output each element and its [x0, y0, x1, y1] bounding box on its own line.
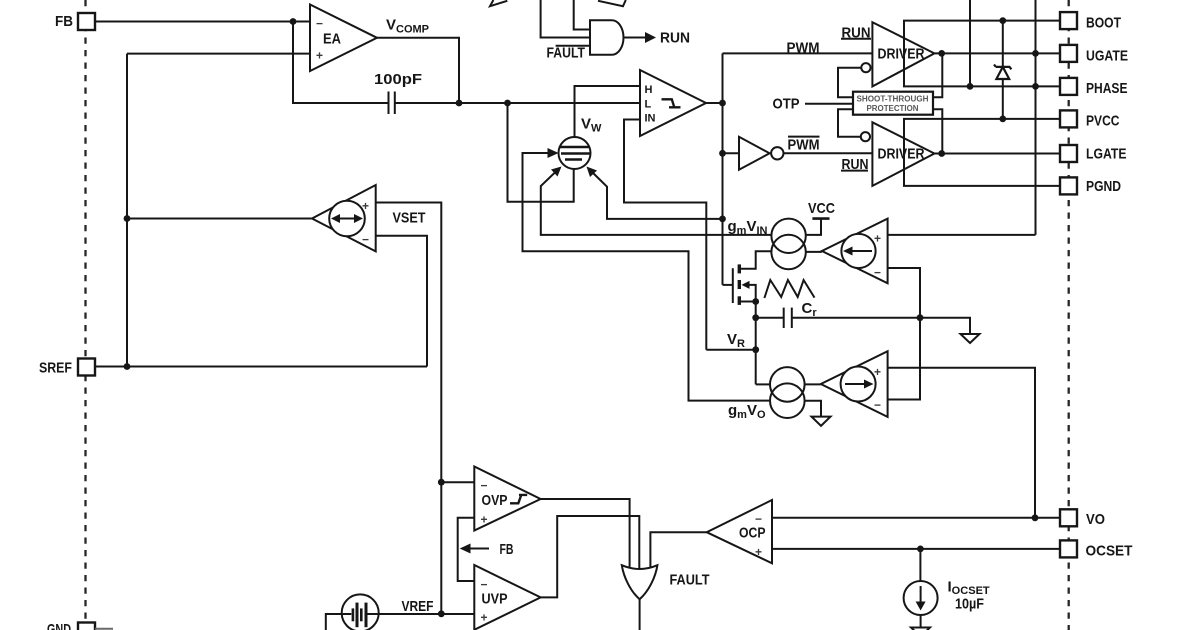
- svg-text:H: H: [645, 84, 653, 96]
- svg-text:+: +: [316, 49, 323, 63]
- svg-text:PWM: PWM: [787, 40, 820, 57]
- wire ramp node vertical: [755, 302, 757, 385]
- node OCSET tap: [917, 546, 924, 553]
- svg-text:BOOT: BOOT: [1086, 15, 1121, 32]
- pin VO: [1060, 509, 1077, 526]
- svg-text:OVP: OVP: [482, 492, 508, 509]
- wire EA output VCOMP: [377, 38, 459, 103]
- node PWM: [719, 100, 726, 107]
- svg-text:OTP: OTP: [773, 96, 800, 113]
- svg-text:+: +: [874, 232, 881, 246]
- pin LGATE: [1060, 145, 1077, 162]
- wire PWM comparator output: [706, 102, 723, 104]
- inverting enable bubble lower driver: [861, 132, 870, 141]
- diode boot (zener): [1002, 21, 1004, 66]
- wire VR to comparator IN: [706, 349, 755, 351]
- wire GND stub: [95, 628, 113, 630]
- svg-text:FAULT: FAULT: [547, 45, 586, 62]
- node PHASE tap: [1032, 83, 1039, 90]
- wire FB pin to EA inverting input: [95, 21, 310, 23]
- wire PVCC/PGND bracket lower driver: [904, 119, 1060, 186]
- svg-text:PHASE: PHASE: [1086, 80, 1128, 97]
- svg-text:+: +: [362, 199, 369, 213]
- svg-text:−: −: [316, 17, 323, 31]
- wire upper bubble to shoot-through box: [838, 68, 861, 98]
- svg-text:OCSET: OCSET: [1086, 543, 1133, 560]
- node inverter input: [719, 150, 726, 157]
- node VW branch: [504, 100, 511, 107]
- wire AND input1 from top: [574, 0, 590, 30]
- svg-text:LGATE: LGATE: [1086, 145, 1127, 162]
- waveform sawtooth icon: [764, 280, 814, 298]
- wire boot rail from top: [1035, 0, 1037, 235]
- wire FAULT output: [639, 599, 641, 630]
- svg-text:PVCC: PVCC: [1086, 113, 1120, 130]
- wire upper gm - to lower gm - rail: [888, 268, 920, 400]
- wire box to LGATE sense: [933, 109, 942, 153]
- gate AND (RUN): [590, 20, 624, 55]
- svg-text:EA: EA: [323, 31, 341, 48]
- node VO tap: [1032, 514, 1039, 521]
- driver U-high: [872, 22, 934, 86]
- wire Cr right to ground: [792, 318, 970, 334]
- svg-text:L: L: [645, 99, 652, 111]
- svg-text:+: +: [874, 365, 881, 379]
- current source pair gmVO: [770, 367, 805, 402]
- IC boundary dashed line (left): [84, 0, 86, 630]
- svg-text:UVP: UVP: [482, 591, 508, 608]
- svg-text:PGND: PGND: [1086, 178, 1121, 195]
- inverter PWMB: [723, 152, 740, 154]
- current source pair gmVIN: [771, 219, 805, 253]
- wire SREF: [95, 366, 427, 368]
- svg-text:RUN: RUN: [660, 30, 690, 47]
- wire IOCSET to ground: [920, 615, 922, 628]
- svg-text:FAULT: FAULT: [670, 572, 710, 589]
- wire RUN output arrow: [623, 37, 646, 39]
- wire upper gm + input from PHASE: [888, 234, 1036, 236]
- svg-text:OCP: OCP: [739, 525, 766, 542]
- svg-text:FB: FB: [55, 13, 73, 30]
- svg-text:+: +: [481, 611, 488, 625]
- svg-text:IN: IN: [645, 113, 656, 125]
- wire AND input2 from top: [541, 0, 590, 38]
- wire VW lower-right arrow from PWM net: [592, 172, 723, 219]
- wire VW left arrow from gmVO net: [523, 153, 771, 401]
- node diode to PVCC: [999, 116, 1006, 123]
- IC boundary dashed line (right): [1068, 0, 1070, 630]
- wire VCOMP to comparator L input: [459, 102, 640, 104]
- node FB/EA- junction: [290, 18, 297, 25]
- capacitor Cr: [756, 317, 784, 319]
- wire VW lower-left arrow from gmVIN net: [541, 171, 772, 235]
- svg-text:DRIVER: DRIVER: [878, 146, 925, 163]
- svg-text:VO: VO: [1086, 511, 1105, 528]
- node Q1 source/body: [752, 298, 759, 305]
- wire FB arrow: [468, 548, 489, 550]
- wire phase sense from top: [969, 0, 971, 86]
- wire Q1 gate from PWM rail: [723, 284, 733, 286]
- pin BOOT: [1060, 12, 1077, 29]
- svg-text:−: −: [362, 233, 369, 247]
- svg-text:PWM: PWM: [788, 137, 820, 154]
- svg-text:FB: FB: [500, 541, 514, 558]
- wire OCP + input from OCSET: [772, 548, 1060, 550]
- pin OCSET: [1060, 540, 1077, 557]
- wire FB bracket OVP+/UVP-: [458, 518, 475, 581]
- node VR: [752, 346, 759, 353]
- cut triangle top left edge: [490, 0, 507, 6]
- wire OVP - input: [441, 481, 474, 483]
- wire VREF left to GND rail: [326, 614, 342, 630]
- svg-text:VREF: VREF: [402, 598, 434, 615]
- comparator OCP: [707, 500, 772, 563]
- comparator OVP: [474, 467, 540, 531]
- svg-text:SREF: SREF: [39, 360, 72, 377]
- node SREF tap: [124, 363, 131, 370]
- comparator H/L/IN: [640, 70, 706, 136]
- svg-text:PROTECTION: PROTECTION: [867, 103, 919, 113]
- node gmVIN label tap: [719, 216, 726, 223]
- wire Q1 drain to mirror: [741, 251, 772, 268]
- wire VSET - output to SREF wire: [376, 236, 427, 367]
- svg-text:DRIVER: DRIVER: [878, 46, 925, 63]
- wire Q1 source: [741, 301, 756, 303]
- wire box to UGATE sense: [933, 53, 942, 97]
- node phase sense: [967, 83, 974, 90]
- wire EA noninverting input from SREF rail: [127, 53, 310, 55]
- pin UGATE: [1060, 45, 1077, 62]
- wire VR into gmVO mirror: [756, 383, 770, 385]
- wire VSET + output to OVP/VREF rail: [376, 203, 442, 614]
- node VCOMP: [456, 100, 463, 107]
- block shoot-through protection: [853, 92, 933, 115]
- ground (IOCSET, cut): [911, 628, 930, 630]
- node UGATE tap: [1032, 50, 1039, 57]
- pin PVCC: [1060, 110, 1077, 127]
- gate OR (FAULT): [622, 565, 658, 599]
- wire UVP output to OR: [541, 516, 640, 597]
- wire OTP input: [805, 103, 853, 105]
- amplifier gm VO (lower): [805, 383, 821, 385]
- svg-text:+: +: [481, 513, 488, 527]
- wire OCP - input from VO: [772, 517, 1060, 519]
- amplifier gm VIN (upper): [806, 251, 822, 253]
- cut triangle top right edge: [598, 0, 626, 6]
- svg-text:−: −: [874, 266, 881, 280]
- node VSET input tap: [124, 215, 131, 222]
- pin SREF: [78, 359, 95, 376]
- op-amp EA: [310, 5, 377, 72]
- wire lower bubble to shoot-through box: [838, 109, 861, 136]
- wire VREF to UVP +: [379, 613, 475, 615]
- wire gmVO lower circle to ground: [805, 401, 821, 417]
- wire VW top to comparator H input: [575, 86, 641, 137]
- svg-text:UGATE: UGATE: [1086, 47, 1128, 64]
- wire BOOT/PHASE bracket upper driver: [904, 21, 1060, 87]
- node Cr/gm- rail: [917, 314, 924, 321]
- svg-text:VCC: VCC: [808, 200, 835, 217]
- wire UGATE output: [934, 52, 1060, 54]
- svg-text:−: −: [874, 398, 881, 412]
- pin PHASE: [1060, 78, 1077, 95]
- node LGATE driver output: [938, 150, 945, 157]
- svg-text:−: −: [481, 578, 488, 592]
- wire comparator IN input from VR: [624, 120, 706, 350]
- ground (gmVO): [812, 417, 831, 426]
- wire LGATE output: [934, 153, 1060, 155]
- svg-text:10µF: 10µF: [955, 596, 984, 613]
- amplifier VSET: [312, 185, 376, 251]
- wire PWM to upper driver: [723, 52, 873, 54]
- transistor Q1 ramp switch: [732, 268, 734, 303]
- window generator VW: [559, 137, 591, 169]
- reference VREF: [342, 594, 379, 630]
- svg-text:VSET: VSET: [393, 210, 426, 227]
- wire VW bottom to VCOMP node: [508, 103, 574, 202]
- wire VSET input: [127, 218, 312, 220]
- pin PGND: [1060, 177, 1077, 194]
- inverting enable bubble upper driver: [861, 63, 870, 72]
- comparator UVP: [474, 565, 540, 630]
- wire OCP output to OR: [650, 532, 706, 576]
- wire PWM vertical rail: [722, 53, 724, 285]
- current source IOCSET: [919, 549, 921, 581]
- svg-text:SHOOT-THROUGH: SHOOT-THROUGH: [857, 93, 929, 103]
- hysteresis glyph: [662, 99, 681, 107]
- svg-text:+: +: [755, 545, 762, 559]
- svg-text:−: −: [481, 479, 488, 493]
- pin GND: [78, 623, 95, 630]
- pin FB: [78, 13, 95, 30]
- node Cr left: [752, 314, 759, 321]
- wire FAULTB input: [556, 45, 590, 47]
- node UGATE driver output: [938, 50, 945, 57]
- wire SREF rail vertical: [126, 54, 128, 367]
- svg-text:GND: GND: [47, 621, 71, 630]
- wire FB node down to 100pF feedback: [293, 22, 388, 104]
- node BOOT diode top: [999, 17, 1006, 24]
- wire OVP output to OR: [541, 499, 630, 573]
- driver U-low: [872, 122, 934, 186]
- wire capacitor to VCOMP node: [395, 102, 459, 104]
- ground (Cr): [961, 334, 980, 343]
- wire lower gm + input from VO: [888, 368, 1035, 518]
- svg-text:100pF: 100pF: [374, 71, 422, 88]
- wire PWMB to lower driver: [784, 152, 873, 154]
- Q1 body arrow: [742, 281, 750, 289]
- node OVP - input: [438, 479, 445, 486]
- node VREF/VSET rail: [438, 610, 445, 617]
